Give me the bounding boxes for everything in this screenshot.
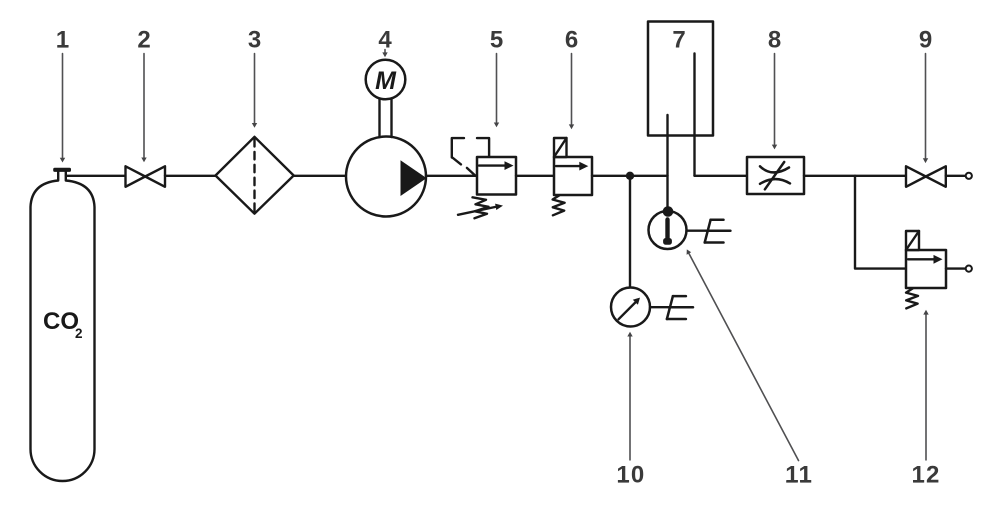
pipe vessel 7 to flow control 8 (695, 175, 748, 177)
vessel 7 (648, 22, 713, 136)
leader arrow 3 (252, 54, 257, 128)
CO2 cylinder 1 outline (31, 171, 95, 482)
filter 3 (diamond) (216, 137, 294, 214)
gauge branch line (629, 176, 631, 288)
motor M circle (component 4) (366, 60, 406, 100)
valve 6 flow arrow (556, 162, 588, 171)
label 2 (137, 27, 150, 54)
pipe filter 3 to pump 4 (294, 175, 347, 177)
pipe cylinder to valve 2 (66, 175, 126, 177)
leader arrow 10 (627, 332, 632, 460)
svg-text:10: 10 (616, 462, 645, 489)
valve 12 return spring (906, 288, 918, 308)
regulator 5 flow arrow (479, 161, 514, 170)
svg-text:8: 8 (768, 27, 781, 54)
leader arrow 1 (60, 54, 65, 163)
thermometer 11 electrical E symbol (705, 220, 731, 243)
svg-text:M: M (375, 67, 397, 95)
motor M letter (375, 67, 397, 95)
pump 4 motor shaft (380, 99, 392, 137)
branch pipe down to valve 12 (855, 176, 906, 269)
thermometer 11 junction dot (663, 206, 674, 217)
pipe valve 9 to outlet (946, 175, 966, 177)
solenoid valve 6 body (554, 157, 592, 195)
outlet port circle (after valve 9) (966, 173, 972, 179)
svg-text:7: 7 (672, 27, 685, 54)
label 6 (565, 27, 578, 54)
pipe valve 12 to outlet (946, 267, 966, 269)
valve 6 solenoid coil (554, 138, 567, 157)
leader arrow 12 (923, 310, 928, 460)
leader arrow 6 (569, 54, 574, 130)
leader arrow 9 (923, 54, 928, 164)
label 11 (785, 462, 813, 489)
gauge 10 needle (619, 298, 640, 320)
label 12 (911, 462, 940, 489)
leader arrow 11 (687, 249, 799, 460)
svg-text:12: 12 (911, 462, 940, 489)
pressure regulator 5 body (477, 157, 516, 195)
label 3 (248, 27, 261, 54)
flow control valve 8 body (747, 157, 804, 194)
svg-text:11: 11 (785, 462, 813, 489)
svg-text:6: 6 (565, 27, 578, 54)
svg-text:3: 3 (248, 27, 261, 54)
leader arrow 2 (141, 54, 146, 163)
svg-text:5: 5 (490, 27, 503, 54)
label 1 (56, 27, 69, 54)
pump 4 flow triangle (401, 160, 427, 196)
label 10 (616, 462, 645, 489)
pump 4 circle (346, 137, 426, 217)
pipe valve 6 to vessel junction (592, 175, 668, 177)
svg-text:CO: CO (43, 308, 79, 335)
leader arrow 8 (772, 54, 777, 150)
shut-off valve 9 (bowtie) (906, 166, 946, 187)
vessel 7 label (672, 27, 685, 54)
regulator 5 pilot line (dashed bracket) (452, 138, 489, 175)
pipe regulator 5 to valve 6 (516, 175, 554, 177)
filter 3 dashed element (253, 139, 255, 212)
flow control 8 restrictor symbol (760, 162, 790, 189)
pressure gauge 10 circle (611, 288, 650, 327)
leader arrow 4 (382, 50, 387, 58)
svg-text:2: 2 (75, 326, 83, 341)
label 5 (490, 27, 503, 54)
gauge 10 signal line (650, 306, 669, 308)
leader arrow 5 (494, 54, 499, 128)
CO2 text (43, 308, 83, 341)
pipe pump 4 to regulator 5 (426, 175, 477, 177)
thermometer 11 signal line (687, 229, 707, 231)
regulator 5 adjustable spring (458, 197, 503, 218)
label 8 (768, 27, 781, 54)
junction node (gauge branch) (626, 172, 634, 180)
svg-text:1: 1 (56, 27, 69, 54)
valve 12 solenoid coil (906, 231, 919, 250)
shut-off valve 2 (bowtie) (126, 166, 166, 187)
outlet port circle (after valve 12) (966, 266, 972, 272)
valve 12 flow arrow (908, 255, 943, 264)
valve 6 return spring (553, 195, 565, 215)
svg-text:9: 9 (919, 27, 932, 54)
thermometer 11 stem and bulb (663, 220, 672, 245)
thermometer 11 circle (649, 211, 687, 249)
gauge 10 electrical E symbol (667, 296, 693, 319)
pipe valve 2 to filter 3 (165, 175, 216, 177)
label 4 (378, 27, 392, 54)
solenoid valve 12 body (906, 250, 946, 288)
svg-text:2: 2 (137, 27, 150, 54)
cylinder valve cap (component 1) (53, 168, 71, 172)
label 9 (919, 27, 932, 54)
vessel 7 inlet tube (666, 115, 668, 208)
vessel 7 dip tube (693, 54, 695, 176)
pipe flow control 8 to valve 9 (804, 175, 906, 177)
